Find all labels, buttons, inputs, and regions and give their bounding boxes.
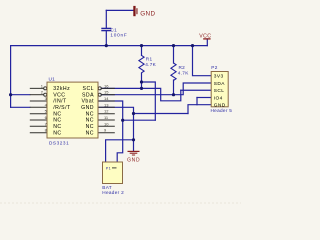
svg-text:IO4: IO4 — [214, 95, 223, 101]
svg-text:U1: U1 — [49, 77, 56, 82]
svg-text:3V3: 3V3 — [214, 74, 224, 80]
svg-text:GND: GND — [127, 158, 140, 164]
svg-text:NC: NC — [53, 111, 61, 117]
svg-text:13: 13 — [104, 102, 109, 107]
svg-text:SCL: SCL — [214, 88, 225, 94]
svg-text:4.7K: 4.7K — [145, 62, 156, 67]
svg-text:R1: R1 — [146, 57, 153, 62]
svg-text:NC: NC — [53, 124, 61, 130]
svg-text:NC: NC — [53, 118, 61, 124]
svg-text:Header 2: Header 2 — [102, 190, 124, 195]
svg-text:/R/S/T: /R/S/T — [53, 105, 71, 111]
svg-text:NC: NC — [86, 124, 94, 130]
svg-text:32kHz: 32kHz — [53, 86, 70, 92]
svg-text:P1: P1 — [106, 166, 111, 170]
svg-text:NC: NC — [86, 130, 94, 136]
svg-text:NC: NC — [53, 130, 61, 136]
svg-text:15: 15 — [104, 90, 109, 95]
svg-text:SDA: SDA — [214, 81, 225, 87]
svg-text:100nF: 100nF — [110, 32, 127, 37]
svg-text:Header 5: Header 5 — [211, 108, 233, 113]
svg-text:SCL: SCL — [83, 86, 94, 92]
svg-text:10: 10 — [104, 121, 109, 126]
svg-text:SDA: SDA — [82, 92, 94, 98]
svg-text:VCC: VCC — [199, 33, 211, 39]
svg-text:12: 12 — [104, 109, 109, 114]
svg-text:Vbat: Vbat — [82, 99, 95, 105]
svg-text:14: 14 — [104, 96, 109, 101]
svg-text:NC: NC — [86, 111, 94, 117]
svg-text:VCC: VCC — [53, 92, 65, 98]
svg-text:4.7K: 4.7K — [178, 70, 189, 75]
svg-text:DS3231: DS3231 — [49, 141, 69, 146]
svg-text:GND: GND — [81, 105, 94, 111]
svg-text:GND: GND — [140, 10, 155, 17]
svg-text:NC: NC — [86, 118, 94, 124]
svg-text:16: 16 — [104, 83, 109, 88]
svg-text:P2: P2 — [211, 65, 217, 70]
svg-text:GND: GND — [214, 102, 226, 108]
svg-text:/IN/T: /IN/T — [53, 99, 67, 105]
